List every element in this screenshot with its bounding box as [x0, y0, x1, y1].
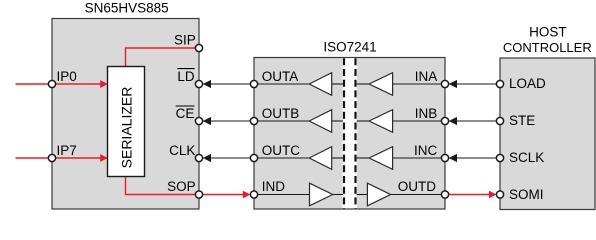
- wire IND to buffer D: [254, 194, 310, 196]
- svg-text:SERIALIZER: SERIALIZER: [119, 87, 135, 169]
- pin circle OUTD: [441, 191, 448, 198]
- arrow into SOMI (red): [489, 191, 497, 199]
- pin circle IP7: [48, 154, 55, 161]
- pin circle IND: [250, 191, 257, 198]
- svg-text:IND: IND: [262, 179, 286, 194]
- wire barrier to buffer C2: [357, 157, 369, 159]
- arrow into INB: [449, 117, 457, 125]
- wire buffer D to barrier: [333, 194, 343, 196]
- isolation barrier white channel: [342, 58, 357, 208]
- svg-text:IP7: IP7: [57, 143, 77, 158]
- isolation barrier dashed line right: [354, 58, 356, 208]
- wire OUTD to SOMI (red): [445, 194, 490, 196]
- arrow into CE: [203, 117, 211, 125]
- pin circle LOAD: [496, 80, 503, 87]
- wire OUTA to LD: [199, 83, 254, 85]
- isolation barrier dashed line left: [343, 58, 345, 208]
- wire barrier to buffer B2: [357, 120, 369, 122]
- svg-text:ISO7241: ISO7241: [323, 40, 376, 55]
- wire OUTB to CE: [199, 120, 254, 122]
- svg-text:IP0: IP0: [57, 69, 77, 84]
- pin circle SOMI: [496, 191, 503, 198]
- block HOST CONTROLLER: [500, 58, 595, 210]
- svg-text:CONTROLLER: CONTROLLER: [503, 40, 592, 55]
- wire buffer B to barrier: [332, 120, 343, 122]
- arrow into serializer IP0 (red): [100, 80, 108, 88]
- pin circle INB: [441, 117, 448, 124]
- buffer D left (points right): [310, 183, 333, 206]
- svg-text:SOMI: SOMI: [509, 187, 544, 202]
- pin circle STE: [496, 117, 503, 124]
- pin circle INA: [441, 80, 448, 87]
- arrow into serializer IP7 (red): [100, 154, 108, 162]
- svg-text:HOST: HOST: [529, 25, 567, 40]
- arrow into LD: [203, 80, 211, 88]
- pin circle OUTC: [250, 154, 257, 161]
- buffer D right (points right): [367, 183, 390, 206]
- wire OUTC to buffer C: [254, 157, 309, 159]
- wire buffer A to barrier: [332, 83, 343, 85]
- wire OUTC to CLK: [199, 157, 254, 159]
- overline LD: [177, 68, 194, 70]
- overline CE: [176, 105, 195, 107]
- svg-text:INA: INA: [415, 69, 438, 84]
- pin circle CLK: [195, 154, 202, 161]
- arrow into CLK: [203, 154, 211, 162]
- buffer C right (points left): [369, 147, 393, 170]
- svg-text:LD: LD: [177, 69, 195, 84]
- svg-text:OUTD: OUTD: [398, 179, 436, 194]
- wire SOP (red): [126, 177, 244, 195]
- wire buffer C2 to INC: [393, 157, 445, 159]
- pin circle INC: [441, 154, 448, 161]
- svg-text:LOAD: LOAD: [509, 76, 546, 91]
- svg-text:SCLK: SCLK: [509, 150, 544, 165]
- wire IP0 input (red): [16, 83, 102, 85]
- svg-text:SOP: SOP: [167, 179, 196, 194]
- wire LOAD to INA: [445, 83, 500, 85]
- arrow into INC: [449, 154, 457, 162]
- svg-text:OUTC: OUTC: [262, 143, 300, 158]
- pin circle IP0: [48, 80, 55, 87]
- pin circle OUTA: [250, 80, 257, 87]
- buffer A right (points left): [369, 73, 393, 96]
- wire SCLK to INC: [445, 157, 500, 159]
- serializer box: [108, 67, 145, 177]
- svg-text:SN65HVS885: SN65HVS885: [85, 1, 169, 16]
- wire barrier to buffer A2: [357, 83, 369, 85]
- wire OUTB to buffer B: [254, 120, 309, 122]
- pin circle CE: [195, 117, 202, 124]
- wire buffer C to barrier: [332, 157, 343, 159]
- pin circle SOP: [195, 191, 202, 198]
- buffer B left (points left): [309, 110, 332, 133]
- svg-text:STE: STE: [509, 113, 535, 128]
- wire buffer A2 to INA: [393, 83, 445, 85]
- svg-text:INC: INC: [414, 143, 438, 158]
- buffer C left (points left): [309, 147, 332, 170]
- wire STE to INB: [445, 120, 500, 122]
- svg-text:OUTB: OUTB: [262, 106, 300, 121]
- svg-text:OUTA: OUTA: [262, 69, 299, 84]
- wire buffer B2 to INB: [393, 120, 445, 122]
- svg-text:SIP: SIP: [174, 33, 196, 48]
- svg-text:CLK: CLK: [169, 143, 195, 158]
- pin circle OUTB: [250, 117, 257, 124]
- wire SIP (red): [126, 48, 200, 67]
- svg-text:CE: CE: [176, 106, 195, 121]
- pin circle LD: [195, 80, 202, 87]
- wire IP7 input (red): [16, 157, 102, 159]
- wire buffer D2 to OUTD: [391, 194, 445, 196]
- wire OUTA to buffer A: [254, 83, 309, 85]
- svg-text:INB: INB: [415, 106, 438, 121]
- arrow into INA: [449, 80, 457, 88]
- pin circle SIP: [195, 44, 202, 51]
- wire barrier to buffer D2: [357, 194, 368, 196]
- block ISO7241: [254, 58, 445, 210]
- buffer A left (points left): [309, 73, 332, 96]
- buffer B right (points left): [369, 110, 393, 133]
- pin circle SCLK: [496, 154, 503, 161]
- block SN65HVS885: [52, 19, 199, 210]
- arrow into IND (red): [243, 191, 251, 199]
